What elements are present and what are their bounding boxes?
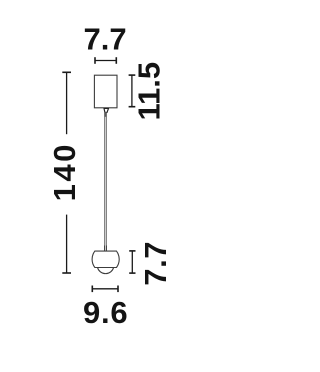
cord dark near grip [105,112,107,116]
svg-text:11.5: 11.5 [131,62,166,121]
dim line 9.6 (lamp width, below lamp) [92,286,118,293]
cord grip [104,108,109,112]
svg-text:140: 140 [47,142,82,201]
dim line 7.7 (lamp height, right of lamp) [129,251,135,273]
canopy rectangle [94,75,117,108]
dim line 140 (overall drop, left side, broken for label) [62,72,71,273]
svg-text:7.7: 7.7 [84,22,127,57]
lamp body [92,251,119,267]
cord (two thin lines) [105,112,107,251]
dim line 11.5 (canopy height, right of canopy) [129,75,136,107]
lamp diffuser dome [98,268,114,274]
svg-text:9.6: 9.6 [83,295,129,330]
cord dark near lamp [105,246,107,253]
svg-text:7.7: 7.7 [138,241,173,286]
dim line 7.7 top [95,57,116,64]
